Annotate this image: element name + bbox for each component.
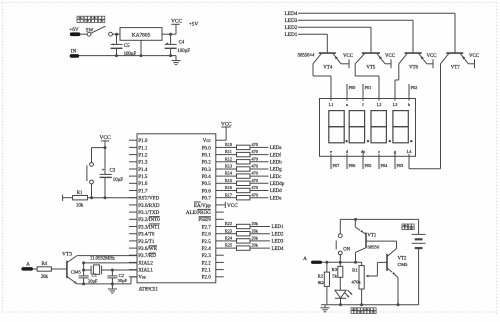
svg-text:P3.2/INT0: P3.2/INT0	[138, 217, 160, 223]
svg-text:P0.2: P0.2	[202, 160, 212, 166]
svg-text:VCC: VCC	[426, 54, 436, 59]
svg-text:P1.5: P1.5	[138, 174, 148, 180]
svg-text:A: A	[303, 256, 307, 262]
svg-text:P3.7/RD: P3.7/RD	[138, 253, 156, 259]
svg-text:R17: R17	[225, 192, 232, 197]
capacitor C1 20pF	[79, 270, 98, 285]
transistor VT4 8550	[319, 53, 341, 70]
crystal Y1	[84, 265, 114, 274]
svg-text:LEDa: LEDa	[270, 146, 283, 151]
node LED1 to transistor base	[285, 32, 328, 53]
svg-text:20k: 20k	[252, 221, 259, 226]
svg-text:P2.2: P2.2	[202, 260, 212, 266]
svg-text:KA7805: KA7805	[132, 32, 151, 38]
svg-text:P03: P03	[397, 163, 405, 168]
svg-text:P0.4: P0.4	[202, 174, 212, 180]
svg-text:P0.6: P0.6	[202, 188, 212, 194]
svg-text:470k: 470k	[352, 279, 362, 284]
capacitor C3 10uF	[100, 148, 124, 198]
svg-text:PSEN: PSEN	[198, 217, 211, 223]
svg-text:VCC: VCC	[99, 135, 110, 141]
transistor VT3 C945	[62, 252, 81, 284]
svg-text:+: +	[166, 42, 169, 47]
svg-text:Vss: Vss	[138, 275, 146, 281]
svg-text:30pF: 30pF	[118, 278, 128, 283]
svg-text:R23: R23	[225, 228, 232, 233]
wire L4 pin stub	[408, 159, 410, 169]
svg-text:ALE/PROG: ALE/PROG	[186, 210, 211, 216]
svg-text:LED1: LED1	[285, 32, 298, 38]
wire U2 output	[162, 33, 176, 36]
svg-text:LED2: LED2	[272, 232, 285, 237]
svg-text:+: +	[112, 43, 115, 48]
svg-text:11.0592MHz: 11.0592MHz	[90, 257, 115, 262]
power VCC VT6 emitter	[426, 54, 436, 68]
power VCC EA pin	[224, 202, 238, 209]
node P05 display pin	[363, 159, 372, 170]
wire VT1 base	[366, 240, 397, 242]
svg-text:P0.3: P0.3	[202, 167, 212, 173]
svg-text:C5: C5	[124, 44, 130, 49]
svg-text:C3: C3	[110, 169, 116, 174]
svg-text:10µF: 10µF	[113, 178, 124, 183]
svg-text:VCC: VCC	[227, 203, 238, 209]
transistor VT6 8550	[405, 53, 427, 70]
svg-text:dp: dp	[361, 149, 365, 154]
svg-text:ON: ON	[343, 247, 350, 252]
svg-text:10k: 10k	[76, 203, 84, 208]
wire battery top rail	[340, 218, 418, 221]
power VCC reset	[99, 135, 110, 149]
svg-text:S8550×4: S8550×4	[298, 54, 316, 59]
svg-text:C945: C945	[71, 270, 82, 275]
svg-text:P2.7: P2.7	[202, 224, 212, 230]
svg-text:VT1: VT1	[367, 234, 377, 239]
svg-text:R3: R3	[332, 267, 338, 272]
svg-text:R14: R14	[225, 171, 233, 176]
svg-text:P2.6: P2.6	[202, 232, 212, 238]
terminal +6V	[69, 27, 80, 36]
svg-text:P2.5: P2.5	[202, 239, 212, 245]
svg-text:XIAL2: XIAL2	[138, 260, 153, 266]
svg-text:LEDf: LEDf	[270, 153, 282, 158]
node LED2 to transistor base	[285, 25, 372, 53]
display DS1 4-digit 7-segment	[320, 96, 416, 158]
svg-text:VCC: VCC	[343, 54, 353, 59]
svg-text:VCC: VCC	[385, 54, 395, 59]
svg-text:P2.3: P2.3	[202, 253, 212, 259]
label S8550x4	[298, 54, 316, 59]
wire VCC to button	[92, 148, 106, 163]
svg-text:VCC: VCC	[171, 19, 182, 25]
svg-text:A: A	[26, 261, 30, 267]
svg-text:P0.1: P0.1	[202, 153, 212, 159]
svg-text:R15: R15	[225, 178, 232, 183]
power VCC VT4 emitter	[341, 54, 353, 68]
svg-text:LED3: LED3	[285, 18, 298, 24]
svg-text:C4: C4	[179, 40, 185, 45]
wire VT2 collector to VT1 base	[396, 241, 398, 248]
svg-text:e: e	[330, 149, 332, 154]
pushbutton S1 reset	[87, 163, 94, 198]
svg-text:20k: 20k	[252, 236, 259, 241]
label 11.0592MHz	[90, 257, 115, 262]
resistor R10 470 node LEDa	[224, 142, 283, 151]
svg-text:LED2: LED2	[285, 25, 298, 31]
svg-text:L1: L1	[329, 102, 334, 107]
resistor R4 20k	[33, 262, 67, 280]
svg-text:P1.7: P1.7	[138, 188, 148, 194]
wire VT3 collector to MCU	[77, 255, 137, 257]
wire VT5 collector to L2	[355, 53, 379, 96]
svg-text:VT2: VT2	[398, 257, 408, 262]
svg-text:470: 470	[252, 178, 258, 183]
svg-text:P04: P04	[381, 163, 389, 168]
svg-text:VT4: VT4	[323, 65, 333, 70]
resistor R1 470k adjustable	[352, 262, 365, 306]
resistor R13 470 node LEDg	[224, 164, 283, 173]
node P07 display pin	[331, 159, 340, 170]
transistor VT5 8550	[362, 53, 385, 70]
svg-text:R16: R16	[225, 185, 232, 190]
svg-text:470: 470	[252, 156, 258, 161]
resistor R23 20k node LED2	[224, 228, 284, 237]
svg-text:P05: P05	[365, 163, 373, 168]
svg-text:RST/VPD: RST/VPD	[138, 196, 159, 202]
node P02 display pin b	[409, 84, 417, 96]
svg-text:P1.4: P1.4	[138, 167, 148, 173]
node P06 display pin	[347, 159, 356, 170]
power VCC VT5 emitter	[385, 54, 395, 68]
svg-text:+5V: +5V	[189, 22, 199, 28]
svg-text:P3.1/TXD: P3.1/TXD	[138, 210, 159, 216]
svg-text:Vcc: Vcc	[203, 138, 212, 144]
svg-text:470: 470	[252, 171, 258, 176]
svg-text:XIAL1: XIAL1	[138, 268, 153, 274]
resistor R12 470 node LEDb	[224, 156, 283, 165]
svg-text:P0.7: P0.7	[202, 196, 212, 202]
wire VT1 emitter up	[354, 219, 356, 227]
svg-text:L2: L2	[377, 102, 382, 107]
resistor R16 470 node LEDd	[224, 185, 283, 194]
label power-switch 电源开关	[77, 16, 105, 22]
svg-text:b: b	[408, 102, 410, 107]
svg-text:R24: R24	[225, 236, 233, 241]
svg-text:P02: P02	[411, 85, 418, 90]
node P00 display pin a	[347, 84, 356, 96]
svg-text:20k: 20k	[252, 243, 259, 248]
svg-text:+: +	[102, 169, 105, 174]
svg-text:R25: R25	[225, 243, 232, 248]
IC U1 AT89C51	[129, 134, 224, 293]
svg-text:LED4: LED4	[272, 247, 285, 252]
svg-text:5k: 5k	[332, 274, 337, 279]
svg-text:P01: P01	[365, 85, 372, 90]
switch ON	[336, 219, 350, 262]
resistor R2 8ohm	[318, 262, 330, 305]
svg-text:IN: IN	[71, 48, 77, 54]
wire XIAL1 net	[112, 269, 137, 271]
svg-text:f: f	[362, 102, 364, 107]
terminal A (charge circuit)	[303, 256, 322, 264]
svg-text:S8550: S8550	[367, 244, 379, 249]
svg-text:R1: R1	[352, 267, 358, 272]
capacitor C5 100uF	[111, 33, 137, 57]
svg-text:g: g	[394, 149, 397, 154]
regulator U2 KA7805	[120, 28, 162, 41]
wire VT2 emitter to ground rail	[397, 278, 400, 307]
svg-text:P2.0: P2.0	[202, 275, 212, 281]
svg-text:8Ω: 8Ω	[318, 280, 324, 285]
svg-text:100µF: 100µF	[177, 49, 190, 54]
svg-text:P1.1: P1.1	[138, 145, 148, 151]
svg-text:C945: C945	[398, 262, 409, 267]
svg-text:P3.4/T0: P3.4/T0	[138, 232, 155, 238]
resistor R11 470 node LEDf	[224, 149, 282, 158]
resistor R3 5k	[332, 262, 343, 290]
node P04 display pin	[379, 159, 388, 170]
svg-text:R2: R2	[318, 273, 324, 278]
svg-text:P2.4: P2.4	[202, 246, 212, 252]
svg-text:d: d	[346, 149, 349, 154]
resistor R1 10k reset	[63, 191, 137, 208]
svg-text:EA/Vpp: EA/Vpp	[194, 203, 211, 209]
svg-text:P0.0: P0.0	[202, 145, 212, 151]
svg-text:R12: R12	[225, 156, 232, 161]
wire SW to U2	[112, 33, 120, 35]
svg-text:P1.2: P1.2	[138, 153, 148, 159]
power VCC MCU Vcc pin	[221, 121, 232, 140]
svg-text:VT7: VT7	[451, 65, 461, 70]
node LED3 to transistor base	[285, 18, 414, 53]
power VCC output	[171, 19, 182, 35]
svg-text:20pF: 20pF	[88, 279, 98, 284]
wire VT1 collector down	[355, 252, 357, 262]
svg-text:C1: C1	[92, 273, 98, 278]
svg-text:+6V: +6V	[69, 27, 79, 33]
svg-text:P1.0: P1.0	[138, 138, 148, 144]
svg-text:LEDg: LEDg	[270, 168, 283, 173]
wire power ground rail	[79, 55, 176, 57]
svg-text:20k: 20k	[41, 275, 49, 280]
svg-text:L3: L3	[393, 102, 398, 107]
wire +6V to SW	[80, 33, 87, 35]
svg-text:470: 470	[252, 142, 258, 147]
node P03 display pin	[395, 159, 404, 170]
wire VT6 collector to L3	[395, 53, 408, 96]
svg-text:P2.1: P2.1	[202, 268, 212, 274]
wire XIAL2 net	[82, 261, 137, 271]
svg-text:P3.6/WR: P3.6/WR	[138, 246, 157, 252]
svg-text:LEDdp: LEDdp	[270, 182, 285, 187]
svg-text:a: a	[346, 102, 348, 107]
svg-text:R11: R11	[225, 149, 232, 154]
ground oscillator	[108, 284, 117, 293]
svg-text:VT5: VT5	[366, 65, 376, 70]
svg-text:AT89C51: AT89C51	[139, 287, 159, 292]
svg-text:VCC: VCC	[469, 54, 479, 59]
wire VT4 collector to L1	[313, 53, 331, 96]
switch SW	[87, 26, 112, 36]
svg-text:470: 470	[252, 164, 258, 169]
svg-text:P3.5/T1: P3.5/T1	[138, 239, 155, 245]
power VCC VT7 emitter	[468, 54, 479, 68]
svg-text:R1: R1	[77, 191, 83, 196]
capacitor C4 100uF	[165, 34, 191, 57]
resistor R15 470 node LEDdp	[224, 178, 285, 187]
svg-text:VT3: VT3	[62, 252, 72, 258]
resistor R14 470 node LEDc	[224, 171, 283, 180]
svg-text:R13: R13	[225, 164, 232, 169]
svg-text:470: 470	[252, 192, 258, 197]
wire oscillator ground rail to Vss	[77, 277, 137, 284]
label +5V	[189, 22, 199, 28]
svg-text:P07: P07	[333, 163, 341, 168]
svg-text:P0.5: P0.5	[202, 181, 212, 187]
battery BT1 电池	[402, 219, 426, 304]
svg-text:P3.3/INT1: P3.3/INT1	[138, 224, 160, 230]
label SW	[86, 28, 94, 34]
svg-text:LED4: LED4	[285, 11, 298, 17]
svg-text:R22: R22	[225, 221, 232, 226]
transistor VT2 C945	[387, 249, 408, 278]
node LED4 to transistor base	[285, 11, 456, 53]
svg-text:LEDb: LEDb	[270, 161, 283, 166]
svg-text:VCC: VCC	[221, 121, 232, 127]
svg-text:470: 470	[252, 149, 258, 154]
svg-text:470: 470	[252, 185, 258, 190]
svg-text:R10: R10	[225, 142, 232, 147]
resistor R25 20k node LED4	[224, 243, 284, 252]
resistor R24 20k node LED3	[224, 236, 284, 245]
ground power section	[172, 56, 181, 65]
svg-text:LED1: LED1	[272, 225, 285, 230]
svg-text:LEDc: LEDc	[270, 175, 283, 180]
svg-text:VT6: VT6	[409, 65, 419, 70]
transistor VT7 8550	[446, 53, 468, 70]
svg-text:LEDd: LEDd	[270, 189, 283, 194]
wire bottom ground rail	[321, 304, 419, 306]
svg-text:L4: L4	[407, 149, 413, 154]
wire R1 wiper to VT2 base	[365, 262, 387, 277]
terminal A signal input	[21, 261, 33, 270]
resistor R17 470 node LEDe	[224, 192, 282, 201]
svg-text:P3.0/RXD: P3.0/RXD	[138, 203, 160, 209]
svg-text:c: c	[378, 149, 380, 154]
svg-text:P00: P00	[349, 85, 357, 90]
wire VT7 collector to L4	[409, 53, 449, 169]
wire node A rail	[322, 261, 362, 264]
svg-text:R4: R4	[41, 262, 47, 267]
svg-text:LED3: LED3	[272, 240, 285, 245]
svg-text:P06: P06	[349, 163, 357, 168]
capacitor C2 30pF	[107, 270, 127, 285]
transistor VT1 S8550	[355, 227, 380, 252]
LED D1 indicator	[335, 290, 352, 306]
label 充电电路	[351, 308, 376, 314]
svg-text:P1.3: P1.3	[138, 160, 148, 166]
ground charge circuit	[321, 305, 330, 312]
svg-text:20k: 20k	[252, 228, 259, 233]
svg-text:LEDe: LEDe	[270, 196, 282, 201]
wire U2 GND lead	[140, 40, 143, 57]
node P01 display pin f	[363, 84, 371, 96]
svg-text:P1.6: P1.6	[138, 181, 148, 187]
terminal IN	[70, 48, 80, 57]
resistor R22 20k node LED1	[224, 221, 284, 230]
